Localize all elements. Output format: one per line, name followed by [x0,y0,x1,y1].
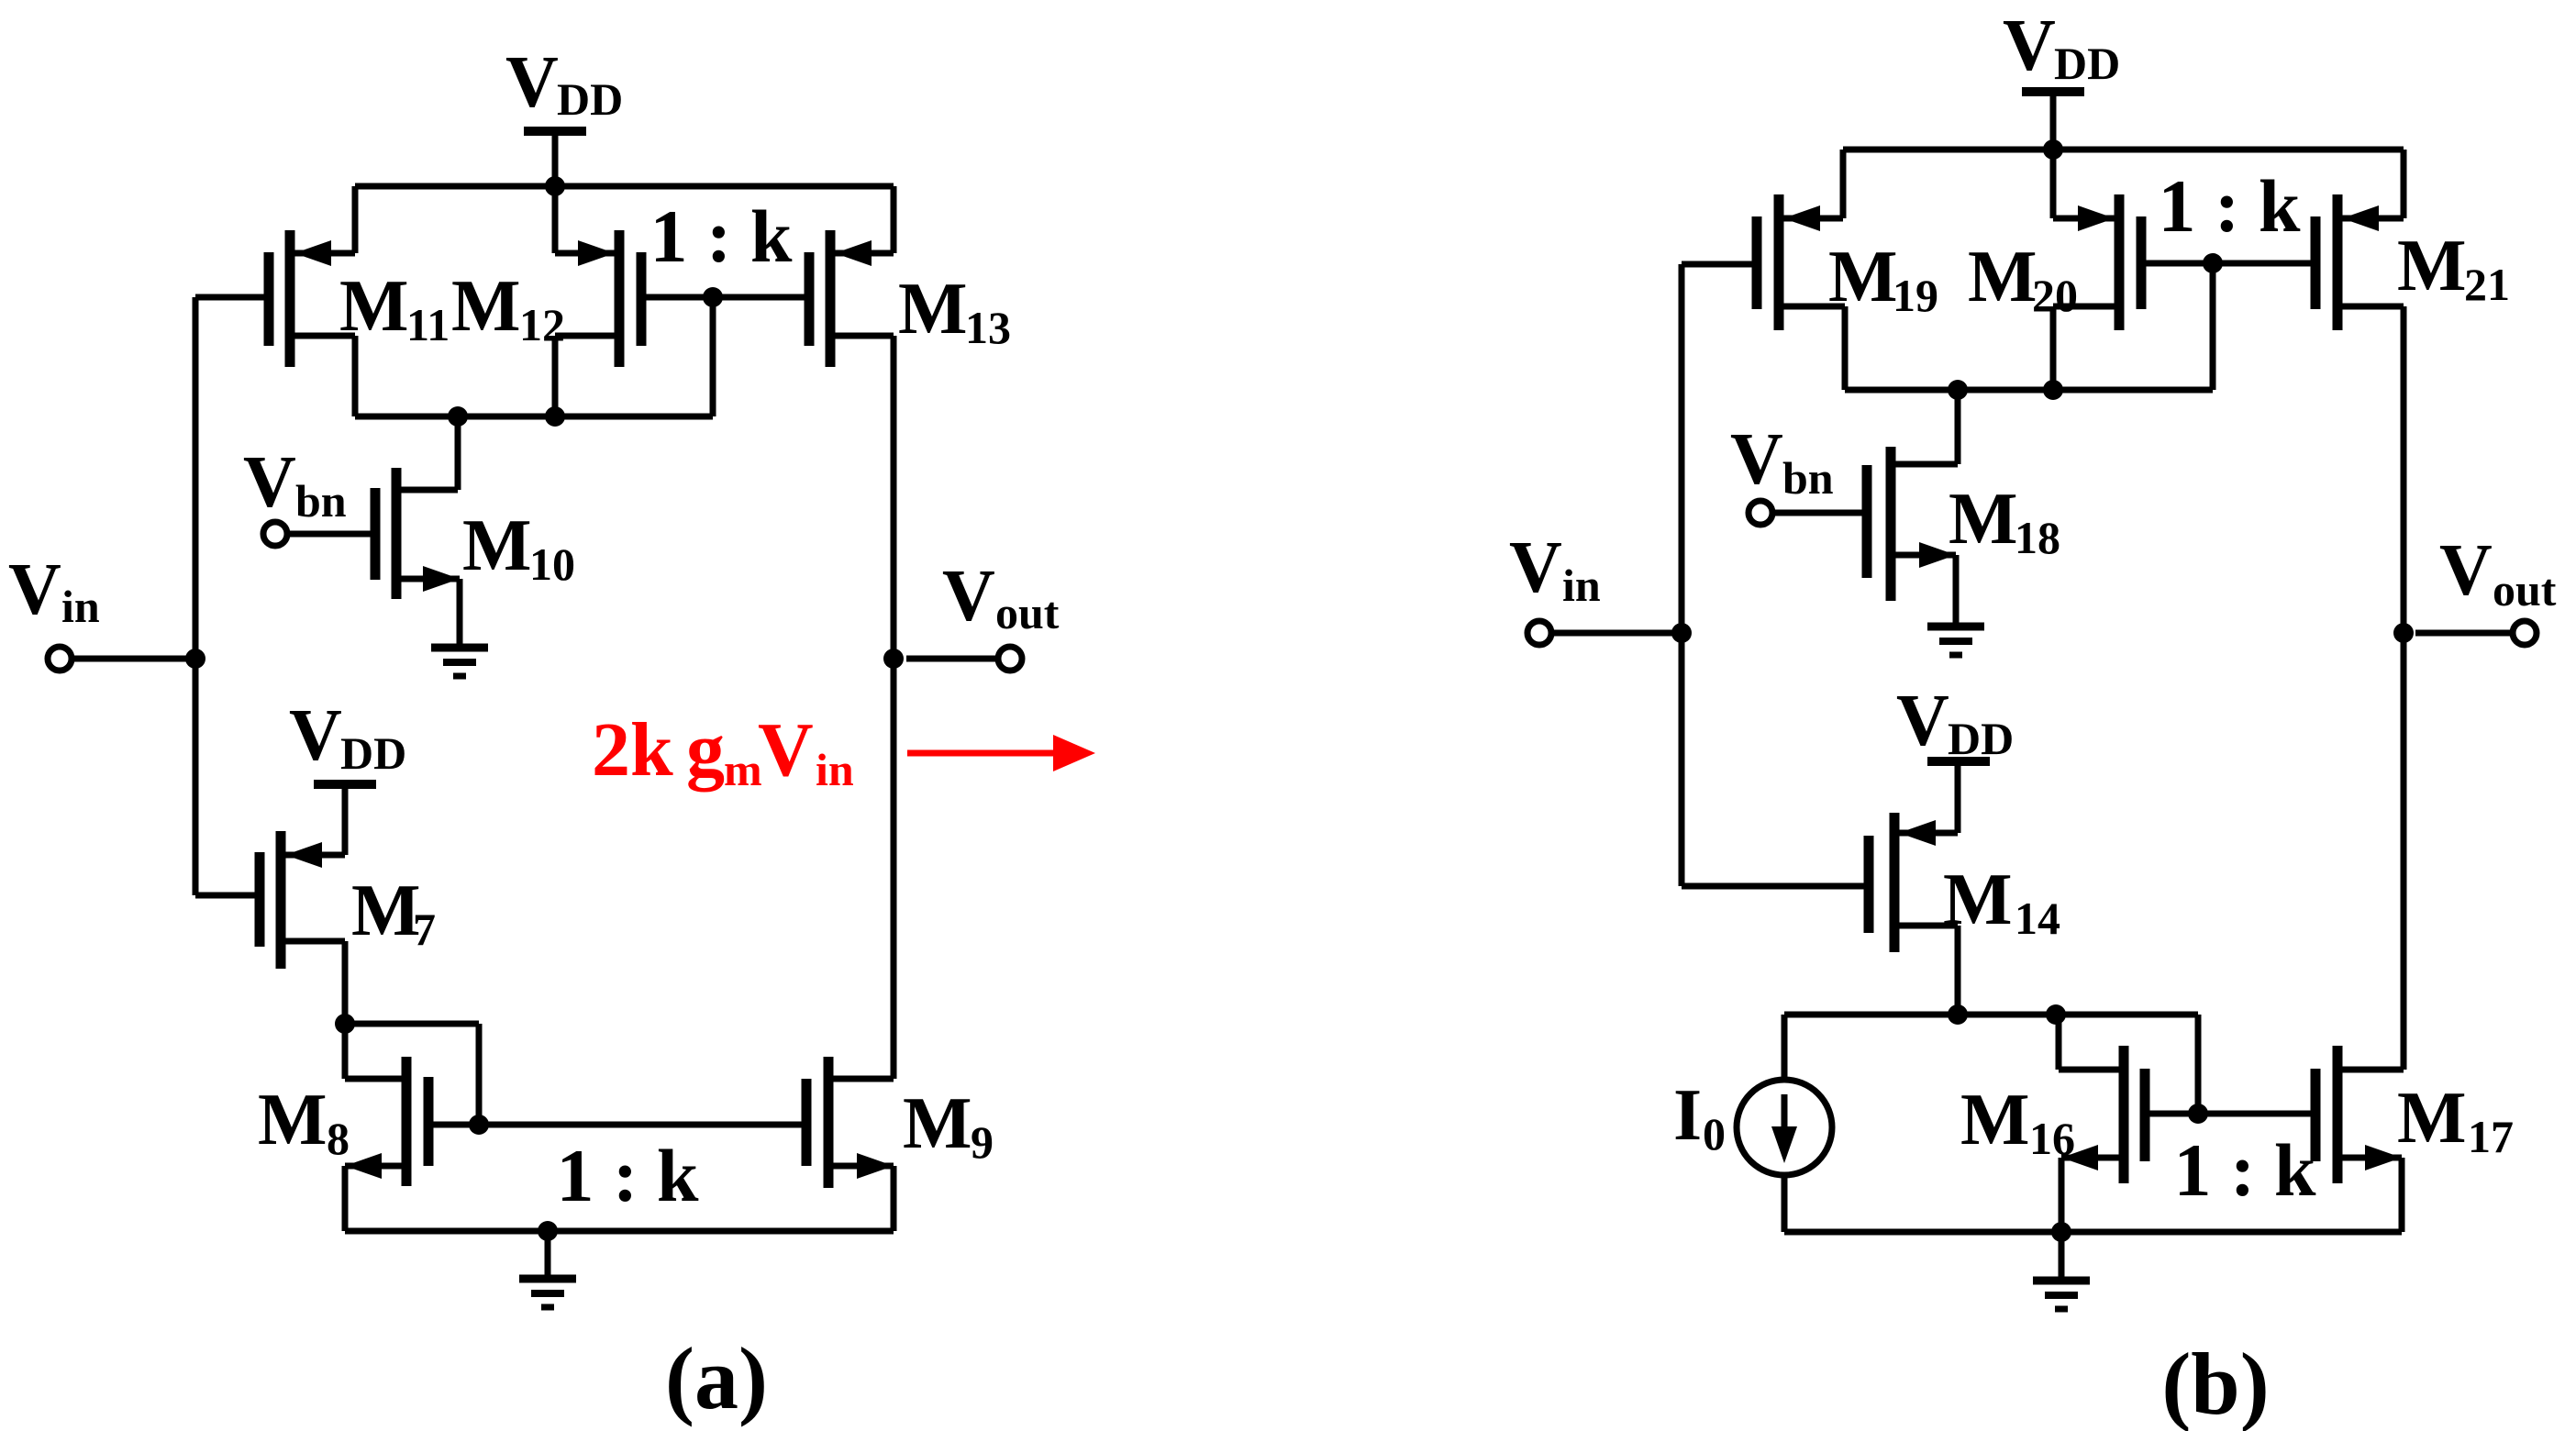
junction: M8 gate / diode connection [469,1115,489,1135]
svg-text:M: M [903,1083,972,1164]
svg-text:1 : k: 1 : k [557,1134,699,1217]
junction: middle rail / M16 drain [2046,1004,2066,1025]
svg-text:bn: bn [1782,452,1834,504]
transistor M9 (NMOS) [806,1057,894,1231]
label Vbn (a) [243,442,347,527]
svg-text:m: m [724,744,762,795]
annotation: red output arrow [907,735,1095,771]
svg-text:11: 11 [406,299,450,350]
svg-text:20: 20 [2032,270,2078,321]
svg-text:M: M [462,505,532,586]
wire: M13 drain down to Vout node and M9 drain [891,336,897,1079]
transistor M12 (PMOS, mirrored) [555,186,641,416]
svg-text:M: M [339,266,409,347]
svg-text:M: M [1828,237,1898,317]
transistor M16 (NMOS, mirrored) [2061,1046,2145,1232]
junction: M16/M17 gate node [2188,1104,2208,1124]
svg-text:V: V [505,42,559,123]
svg-text:M: M [258,1080,328,1160]
svg-text:V: V [8,549,61,630]
junction: gate link / diode connection [703,287,723,307]
svg-text:DD: DD [1948,713,2014,764]
wire: M16 drain connection [2059,1015,2124,1070]
node Vin terminal (a) [8,549,195,671]
wire: M16/M17 gate link [2145,1111,2315,1117]
transistor M19 (PMOS) [1757,150,1845,390]
svg-text:18: 18 [2015,512,2060,563]
wire: M12/M13 gate link [641,294,809,301]
svg-text:9: 9 [971,1116,994,1168]
junction: middle rail / M14 drain [1948,1004,1968,1025]
svg-text:(a): (a) [665,1329,768,1427]
svg-text:M: M [1960,1080,2030,1160]
annotation: output current 2k gm Vin (red) [592,707,854,795]
svg-text:V: V [289,695,342,776]
transistor M8 (NMOS, mirrored) [345,1057,428,1231]
svg-text:17: 17 [2468,1111,2514,1162]
svg-text:M: M [351,871,421,951]
junction: Vout node (a) [883,649,904,669]
wire: diode link to M8 gate column [345,1024,479,1125]
node Vout terminal (a) [906,556,1060,671]
node Vout terminal (b) [2415,530,2557,645]
wire: (b) drain rail to M18 drain [1891,390,1958,464]
svg-text:V: V [1509,527,1562,608]
wire: Vin vertical line (b) [1679,264,1685,886]
svg-text:DD: DD [557,73,623,125]
transistor M7 (PMOS) [195,831,345,1024]
svg-text:M: M [451,266,521,347]
power VDD symbol (a) middle [289,695,406,855]
wire: Vin vertical line (a) [193,297,199,895]
svg-text:(b): (b) [2161,1335,2269,1431]
power VDD symbol (a) top [505,42,623,186]
ground symbol (a) bottom [519,1231,576,1307]
wire: M20/M21 gate link [2141,261,2315,267]
svg-text:out: out [995,587,1060,638]
wire: (a) bottom source rail [345,1228,894,1235]
svg-text:M: M [1949,479,2018,560]
svg-text:M: M [1968,237,2037,317]
junction: (b) VDD rail / M20 source [2043,139,2063,160]
svg-text:DD: DD [340,727,406,779]
junction: (b) bottom rail / ground [2051,1222,2071,1242]
junction: Vout node (b) [2393,623,2414,643]
svg-text:in: in [1562,560,1601,611]
svg-text:V: V [2003,6,2056,86]
wire: drain rail to M10 drain [396,416,458,490]
svg-text:16: 16 [2029,1113,2075,1164]
svg-text:12: 12 [519,299,565,350]
node Vbn terminal (a) [263,522,375,546]
junction: (b) drain rail / M18 drain [1948,380,1968,400]
svg-text:1 : k: 1 : k [650,194,793,278]
svg-text:7: 7 [413,904,436,955]
wire: M8 drain connection [345,1024,406,1079]
transistor M17 (NMOS) [2315,1046,2404,1232]
svg-text:V: V [2439,530,2493,611]
power VDD symbol (b) middle [1896,681,2014,833]
wire: (a) top VDD rail [355,183,894,190]
transistor M20 (PMOS, mirrored) [2053,150,2141,390]
svg-text:in: in [61,581,100,632]
transistor M18 (NMOS cascode) [1867,447,1956,624]
junction: drain rail / M12 drain [545,406,565,427]
transistor M13 (PMOS) [809,186,894,367]
wire: M19 gate to Vin line (b) [1682,261,1757,268]
junction: M7 drain / M8 diode node [335,1014,355,1034]
svg-text:V: V [1730,419,1783,500]
svg-text:14: 14 [2015,893,2060,944]
svg-text:1 : k: 1 : k [2159,164,2301,248]
svg-text:10: 10 [529,538,575,590]
transistor M10 (NMOS cascode) [375,468,460,645]
wire: M19/M20 drain rail [1845,387,2213,394]
svg-text:M: M [898,269,968,349]
svg-text:V: V [243,442,296,523]
junction: Vin node (a) [185,649,205,669]
label I0 [1673,1075,1726,1159]
label Vbn (b) [1730,419,1834,504]
svg-text:V: V [942,556,995,637]
junction: VDD rail / M12 source [545,176,565,196]
svg-text:V: V [1896,681,1949,761]
svg-text:I: I [1673,1075,1702,1156]
svg-text:1 : k: 1 : k [2174,1128,2316,1212]
node Vin terminal (b) [1509,527,1682,645]
svg-text:M: M [2397,1078,2467,1159]
ground symbol under M18 [1927,627,1984,655]
wire: diode connection down to drain rail [710,297,716,416]
wire: (b) diode connection down to drain rail [2210,263,2216,390]
svg-text:g: g [686,707,725,793]
junction: (b) top gate link [2203,253,2223,273]
wire: M11 gate to Vin line [195,294,269,301]
junction: bottom rail / ground [538,1221,558,1241]
wire: (b) middle rail [1784,1012,2198,1018]
svg-text:19: 19 [1893,270,1938,321]
svg-text:2k: 2k [592,707,673,793]
transistor M11 (PMOS) [269,186,355,416]
svg-text:8: 8 [327,1113,350,1164]
junction: drain rail / M10 drain [448,406,468,427]
svg-text:in: in [816,744,854,795]
svg-text:DD: DD [2054,38,2120,89]
svg-text:M: M [2397,226,2467,306]
wire: M11/M12 drain rail [355,414,713,420]
svg-text:13: 13 [965,302,1011,353]
junction: Vin node (b) [1671,623,1692,643]
wire: (b) top VDD rail [1843,147,2404,153]
wire: M8/M9 gate link [428,1122,806,1128]
ground symbol (b) bottom [2033,1232,2090,1309]
current source I0 [1737,1015,1832,1232]
wire: M21 drain down to Vout node and M17 drain [2401,306,2407,1070]
junction: (b) drain rail / M20 drain [2043,380,2063,400]
node Vbn terminal (b) [1749,501,1867,525]
power VDD symbol (b) top [2003,6,2120,150]
svg-text:bn: bn [295,475,347,527]
svg-text:out: out [2493,564,2557,616]
svg-text:0: 0 [1703,1108,1726,1159]
svg-text:M: M [1943,860,2013,940]
svg-text:V: V [758,707,814,793]
transistor M21 (PMOS) [2315,150,2404,330]
ground symbol under M10 [431,648,488,676]
wire: (b) bottom source rail [1784,1229,2402,1236]
wire: middle rail down to M16/M17 gates [2195,1015,2202,1114]
transistor M14 (PMOS) [1682,813,1958,1015]
svg-text:21: 21 [2464,259,2510,310]
